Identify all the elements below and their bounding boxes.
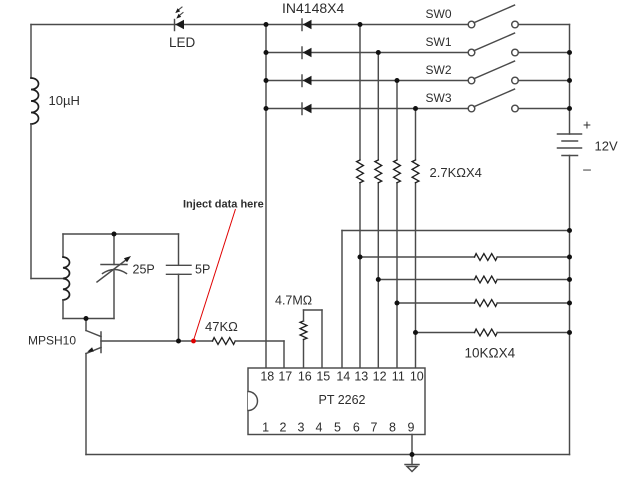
- wire row SW1: [266, 52, 468, 54]
- resistor R2 2.7K: [375, 160, 382, 183]
- svg-text:LED: LED: [169, 35, 196, 50]
- svg-text:4.7MΩ: 4.7MΩ: [275, 293, 312, 307]
- svg-text:12V: 12V: [595, 139, 618, 154]
- wire right bus lower: [569, 156, 571, 455]
- node r7 left: [358, 255, 363, 260]
- wire bottom rail: [86, 454, 570, 456]
- svg-text:15: 15: [316, 369, 330, 383]
- wire left bus lower: [30, 124, 32, 279]
- battery B1 12V: [558, 134, 582, 156]
- resistor R10 10K row4: [416, 329, 570, 336]
- svg-text:12: 12: [373, 369, 387, 383]
- node r9 left: [395, 301, 400, 306]
- svg-text:2: 2: [280, 421, 287, 435]
- switch SW0: [468, 5, 569, 28]
- node inject point: [191, 339, 196, 344]
- node right bus SW3: [567, 106, 572, 111]
- wire red pointer: [194, 209, 236, 340]
- node tank bottom collector: [84, 316, 89, 321]
- svg-text:1: 1: [262, 421, 269, 435]
- svg-text:17: 17: [278, 369, 292, 383]
- node r8 left: [376, 277, 381, 282]
- wire 47K to pin17: [235, 340, 284, 342]
- svg-text:–: –: [583, 161, 591, 177]
- wire data line B (pin12): [377, 53, 379, 369]
- svg-text:6: 6: [353, 421, 360, 435]
- switch SW2: [468, 61, 569, 84]
- wire pin14 vertical: [341, 231, 343, 369]
- wire pin9 to ground: [411, 435, 413, 455]
- node data D tap: [413, 106, 418, 111]
- inductor L2 tank coil: [62, 234, 64, 257]
- node tank top: [112, 232, 117, 237]
- resistor R7 10K row1: [360, 254, 570, 261]
- switch SW3: [468, 89, 569, 112]
- svg-text:SW1: SW1: [426, 35, 452, 49]
- wire data line D (pin10): [415, 109, 417, 369]
- node data C tap: [395, 78, 400, 83]
- svg-text:SW0: SW0: [426, 7, 452, 21]
- svg-text:SW3: SW3: [426, 91, 452, 105]
- wire pin17 vertical: [283, 341, 285, 368]
- resistor R3 2.7K: [394, 160, 401, 183]
- svg-text:+: +: [583, 117, 591, 133]
- svg-text:IN4148X4: IN4148X4: [282, 0, 344, 16]
- diode D4 IN4148: [302, 103, 312, 115]
- svg-text:13: 13: [354, 369, 368, 383]
- diode D3 IN4148: [302, 75, 312, 87]
- wire row SW2: [266, 80, 468, 82]
- IC U1 PT2262 body: [248, 368, 425, 435]
- svg-text:14: 14: [336, 369, 350, 383]
- node data B tap: [376, 50, 381, 55]
- node base: [176, 339, 181, 344]
- svg-text:5: 5: [334, 421, 341, 435]
- node ground: [410, 452, 415, 457]
- node right bus r7: [567, 255, 572, 260]
- node right bus r9: [567, 301, 572, 306]
- inductor L1 10uH: [31, 78, 39, 124]
- svg-text:3: 3: [298, 421, 305, 435]
- node data A tap: [358, 22, 363, 27]
- node diode bus row1: [264, 50, 269, 55]
- wire coil tap: [31, 278, 63, 280]
- svg-text:10µH: 10µH: [49, 93, 80, 108]
- wire top row SW0: [31, 24, 468, 26]
- switch SW1: [468, 33, 569, 56]
- svg-text:2.7KΩX4: 2.7KΩX4: [430, 165, 482, 180]
- node diode bus row0: [264, 22, 269, 27]
- node diode bus row3: [264, 106, 269, 111]
- svg-text:SW2: SW2: [426, 63, 452, 77]
- ground: [405, 455, 419, 472]
- wire right bus upper: [569, 25, 571, 135]
- svg-text:10: 10: [410, 369, 424, 383]
- resistor R1 2.7K: [357, 160, 364, 183]
- svg-text:PT 2262: PT 2262: [318, 393, 365, 407]
- diode D1 IN4148: [302, 19, 312, 31]
- svg-text:9: 9: [408, 421, 415, 435]
- node right bus SW2: [567, 78, 572, 83]
- svg-text:5P: 5P: [195, 263, 210, 277]
- wire data line C (pin11): [396, 81, 398, 369]
- svg-text:11: 11: [392, 369, 405, 383]
- resistor R4 2.7K: [412, 160, 419, 183]
- svg-text:16: 16: [298, 369, 312, 383]
- node right bus r8: [567, 277, 572, 282]
- resistor R8 10K row2: [378, 276, 569, 283]
- wire left bus upper: [30, 25, 32, 79]
- capacitor C1 25P trimmer: [97, 234, 131, 319]
- resistor R6 4.7M: [300, 310, 322, 368]
- svg-text:47KΩ: 47KΩ: [205, 319, 238, 334]
- wire data line A (pin13): [359, 25, 361, 369]
- red inject annotation: [191, 209, 235, 343]
- node right bus vcc: [567, 228, 572, 233]
- transistor Q1 MPSH10: [86, 319, 101, 455]
- wire pin14 to right bus: [342, 230, 570, 232]
- svg-text:7: 7: [371, 421, 378, 435]
- svg-text:4: 4: [316, 421, 323, 435]
- LED D5: [175, 7, 185, 31]
- svg-text:8: 8: [389, 421, 396, 435]
- resistor R5 47K: [213, 338, 236, 345]
- svg-text:Inject data here: Inject data here: [183, 199, 264, 211]
- node right bus SW1: [567, 50, 572, 55]
- node diode bus row2: [264, 78, 269, 83]
- capacitor C2 5P: [167, 234, 192, 341]
- resistor R9 10K row3: [397, 300, 570, 307]
- svg-text:25P: 25P: [133, 263, 155, 277]
- wire row SW3: [266, 108, 468, 110]
- diode D2 IN4148: [302, 47, 312, 59]
- svg-text:MPSH10: MPSH10: [28, 334, 76, 348]
- wire pin18 / diode bus: [265, 25, 267, 369]
- wire base to 47K: [101, 340, 213, 342]
- node right bus r10: [567, 330, 572, 335]
- svg-text:10KΩX4: 10KΩX4: [465, 346, 516, 361]
- wire tank top: [63, 233, 179, 235]
- node r10 left: [413, 330, 418, 335]
- svg-text:18: 18: [260, 369, 274, 383]
- wire tank bottom: [63, 318, 114, 320]
